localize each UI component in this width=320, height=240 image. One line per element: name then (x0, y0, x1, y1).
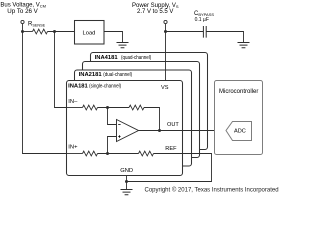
svg-text:REF: REF (165, 146, 177, 152)
svg-text:ADC: ADC (234, 129, 246, 135)
wire noninverting input (108, 137, 117, 154)
svg-text:(single-channel): (single-channel) (89, 84, 121, 90)
ground main (121, 190, 133, 195)
svg-text:Microcontroller: Microcontroller (219, 89, 258, 95)
ground bypass (238, 43, 250, 48)
svg-text:Load: Load (83, 31, 96, 37)
wire GND stub (126, 176, 128, 190)
wire VS (165, 32, 167, 81)
adc block (226, 122, 252, 141)
wire (48, 31, 75, 33)
wire OUT (139, 130, 227, 132)
svg-text:(quad-channel): (quad-channel) (121, 55, 151, 61)
node junction IN+ (106, 152, 109, 155)
node junction load (53, 30, 56, 33)
wire REF out and return (127, 154, 212, 182)
wire load to ground (104, 32, 123, 43)
svg-text:IN–: IN– (68, 99, 78, 105)
node junction GND (125, 180, 128, 183)
svg-text:OUT: OUT (167, 122, 179, 128)
load box (75, 21, 105, 45)
svg-text:Copyright © 2017, Texas Instru: Copyright © 2017, Texas Instruments Inco… (145, 187, 279, 194)
resistor R2 (83, 151, 98, 156)
svg-text:INA2181: INA2181 (79, 72, 103, 78)
wire (165, 24, 167, 32)
svg-text:(dual-channel): (dual-channel) (103, 72, 132, 78)
wire (23, 31, 33, 33)
wire inverting input (108, 108, 117, 125)
op-amp plus sign (118, 135, 120, 137)
node junction supply (164, 30, 167, 33)
op-amp A1 (117, 120, 139, 142)
svg-text:Up To 26 V: Up To 26 V (7, 8, 38, 15)
node junction IN- (106, 106, 109, 109)
node junction OUT (158, 129, 161, 132)
svg-text:VS: VS (161, 85, 169, 91)
resistor R3 feedback (129, 105, 144, 110)
wire (98, 107, 130, 109)
wire (166, 31, 204, 33)
svg-text:IN+: IN+ (68, 145, 78, 151)
wire (98, 153, 139, 155)
terminal power supply (164, 20, 167, 23)
wire IN+ from left junction (23, 32, 83, 154)
wire feedback to out (144, 108, 160, 131)
resistor R4 ref (139, 151, 154, 156)
microcontroller box (215, 81, 263, 155)
wire (22, 24, 24, 32)
box INA4181 (91, 53, 208, 150)
svg-text:GND: GND (120, 168, 133, 174)
resistor RSENSE (33, 29, 48, 34)
svg-text:INA181: INA181 (68, 84, 88, 90)
wire cap to ground (206, 32, 243, 43)
box INA2181 (75, 70, 192, 166)
resistor R1 (83, 105, 98, 110)
wire IN- inside (67, 107, 83, 109)
capacitor CBYPASS (203, 26, 206, 38)
terminal bus voltage (21, 20, 24, 23)
svg-text:INA4181: INA4181 (95, 55, 119, 61)
op-amp minus sign (118, 124, 120, 126)
svg-text:0.1 µF: 0.1 µF (195, 17, 209, 23)
box channel2 (83, 62, 200, 158)
ground load (117, 43, 129, 48)
box INA181 (67, 81, 183, 176)
svg-text:2.7 V to 5.5 V: 2.7 V to 5.5 V (137, 9, 173, 15)
wire IN- from right junction (55, 32, 83, 108)
wire IN+ inside (67, 153, 83, 155)
node junction bus (21, 30, 24, 33)
